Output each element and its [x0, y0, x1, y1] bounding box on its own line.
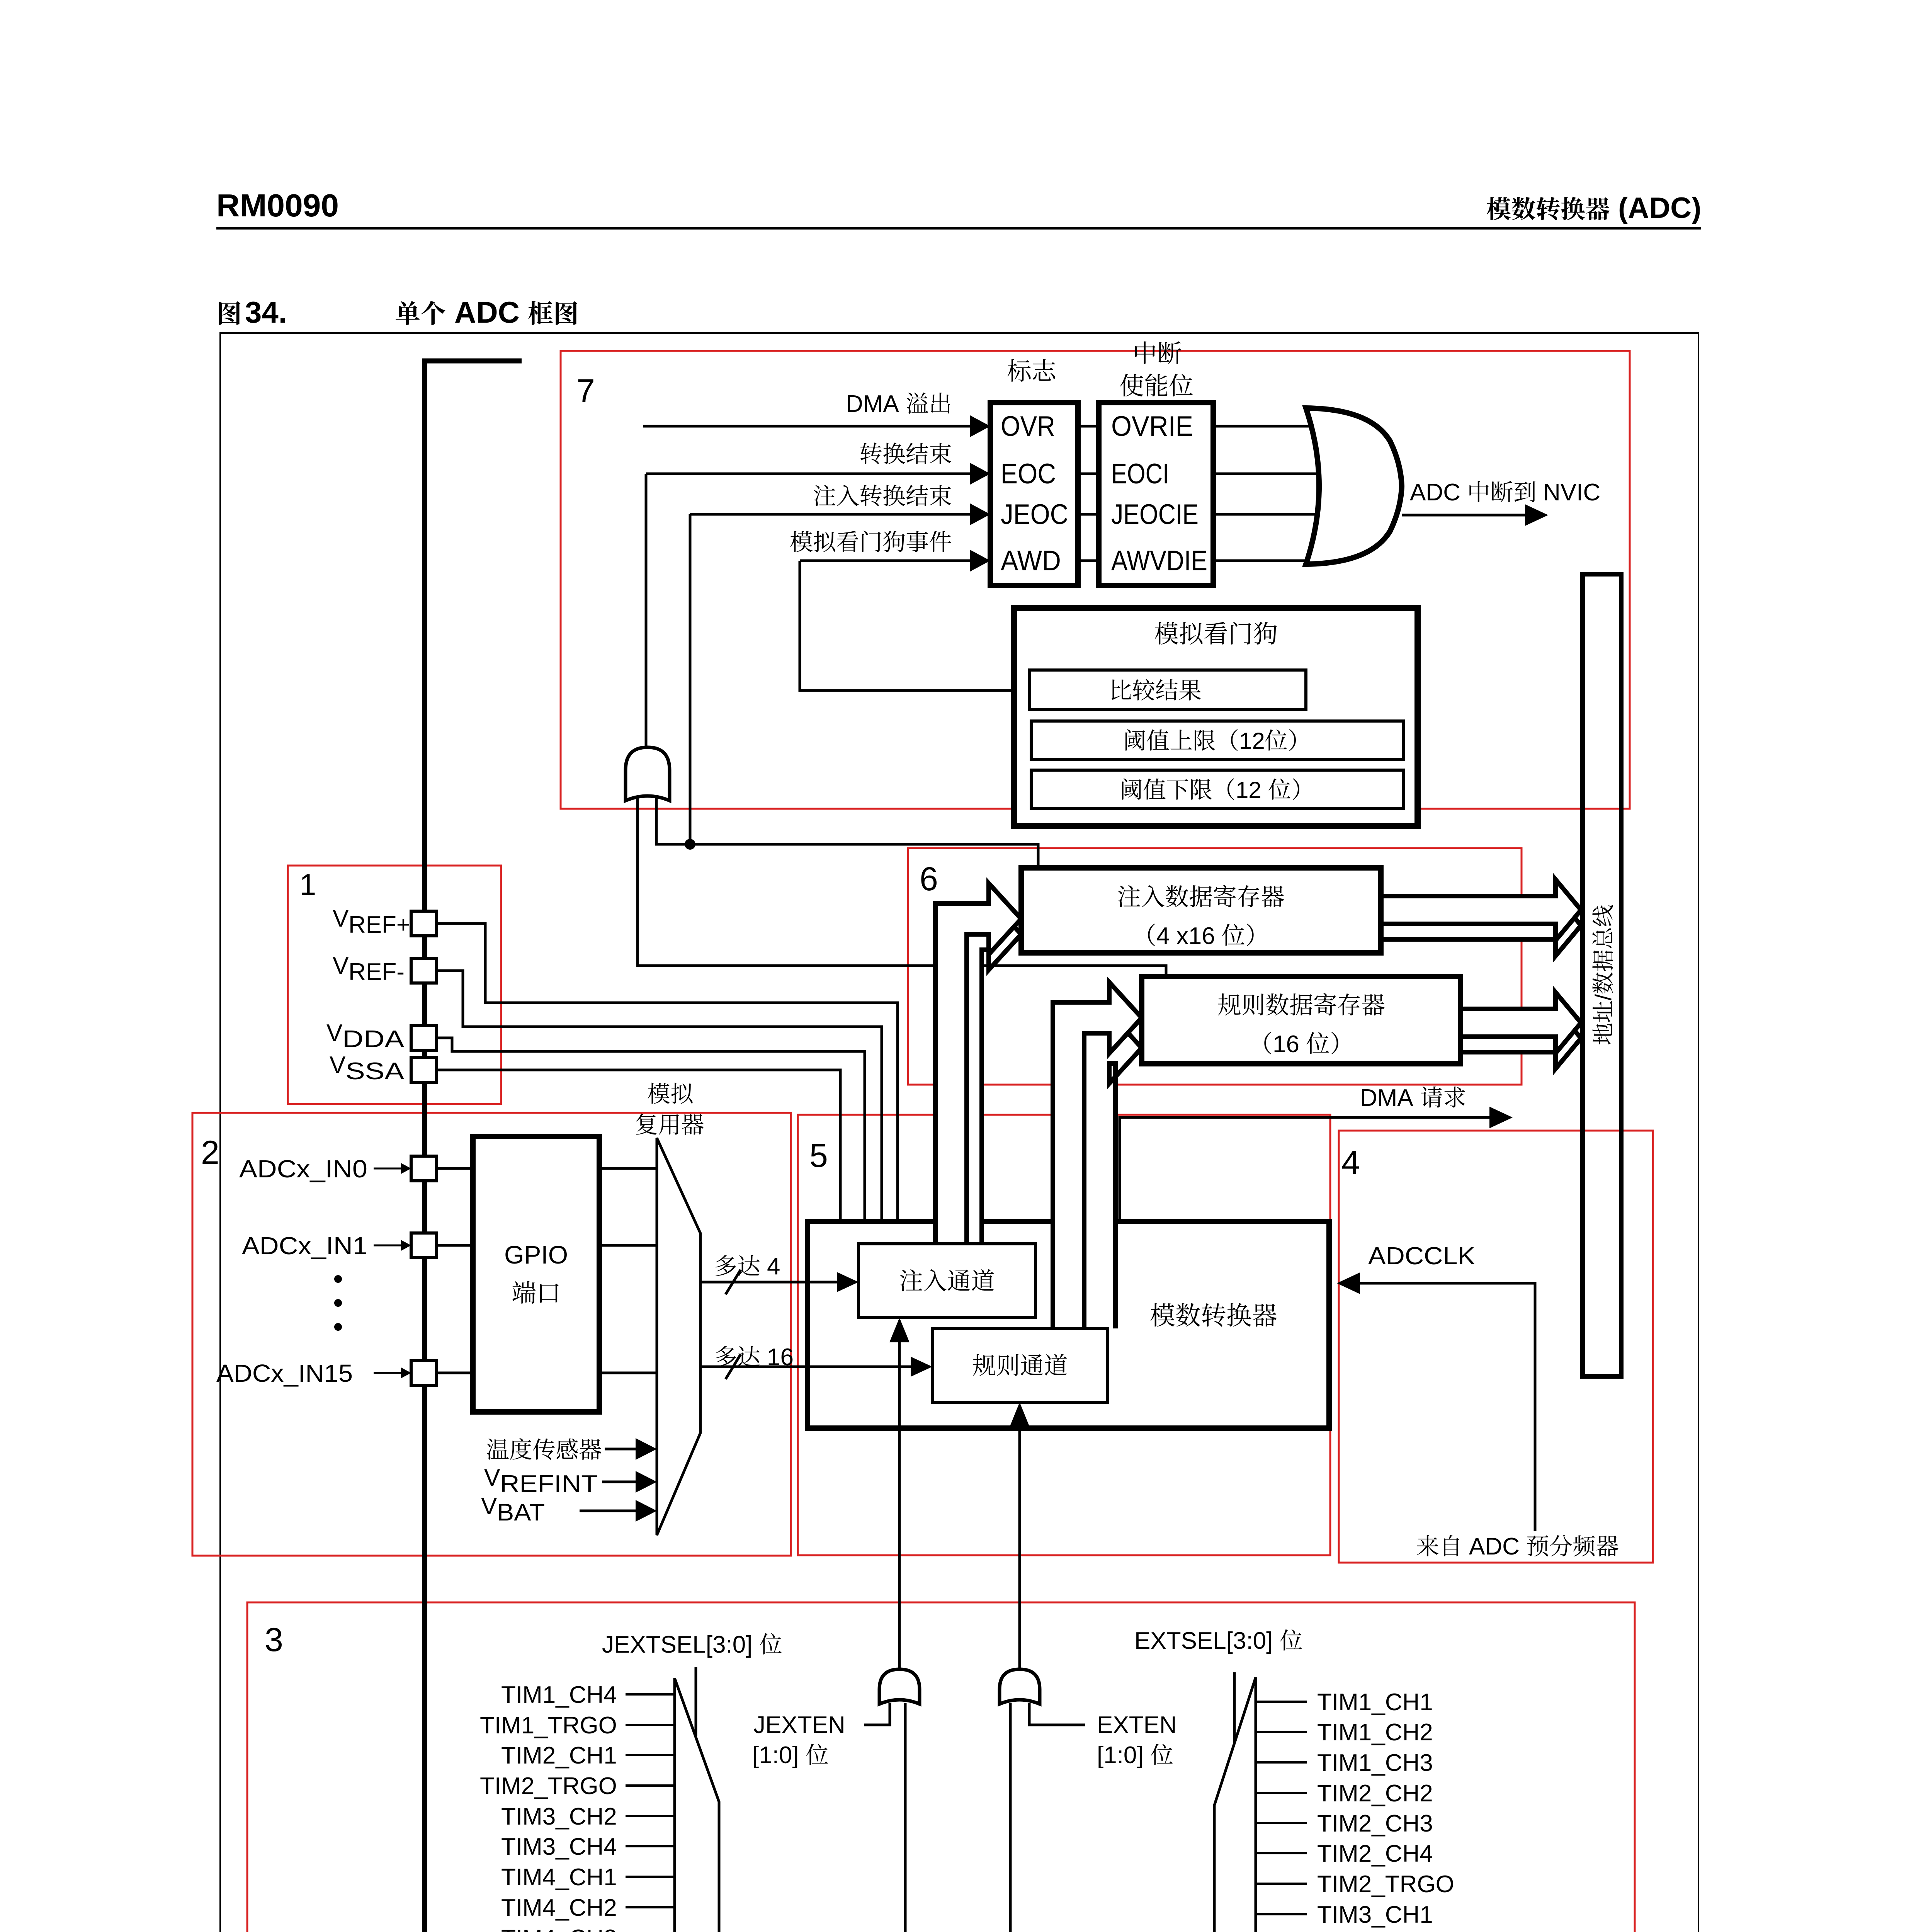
svg-text:TIM1_CH4: TIM1_CH4	[501, 1682, 617, 1708]
svg-text:ADC: ADC	[454, 295, 520, 329]
injected data in arrow back	[950, 899, 1021, 1244]
regular data in arrow front	[1053, 982, 1142, 1328]
watchdog source OR gate	[626, 747, 670, 801]
arrowhead DMA overrun	[970, 415, 990, 437]
svg-text:TIM1_CH2: TIM1_CH2	[1317, 1719, 1433, 1746]
label 16 bits	[1264, 1032, 1271, 1054]
svg-text:V: V	[326, 1020, 343, 1046]
wires flags to enable box	[1078, 425, 1099, 428]
svg-text:RM0090: RM0090	[216, 187, 339, 223]
wire VDDA	[435, 1038, 865, 1221]
svg-text:AWVDIE: AWVDIE	[1111, 545, 1207, 577]
svg-text:ADCx_IN0: ADCx_IN0	[239, 1155, 367, 1183]
wire EOC vertical to OR gate output	[645, 474, 648, 750]
svg-text:12: 12	[1239, 728, 1265, 754]
svg-text:6: 6	[920, 861, 938, 898]
svg-text:(ADC): (ADC)	[1618, 192, 1701, 224]
svg-text:TIM2_CH1: TIM2_CH1	[501, 1742, 617, 1769]
wire VSSA	[435, 1070, 840, 1221]
region 3 outline	[247, 1602, 1635, 1932]
svg-text:TIM4_CH2: TIM4_CH2	[501, 1895, 617, 1921]
wire temp sensor to mux	[605, 1448, 638, 1451]
svg-text:JEXTSEL[3:0]: JEXTSEL[3:0]	[602, 1631, 752, 1658]
label high threshold	[1125, 729, 1145, 750]
arrowhead up-to-16	[911, 1357, 932, 1377]
regular data out arrow front	[1460, 992, 1581, 1053]
GPIO ports box	[473, 1136, 599, 1412]
label compare result	[1112, 679, 1131, 700]
svg-text:ADCx_IN1: ADCx_IN1	[242, 1232, 367, 1260]
pin VREF+	[411, 911, 437, 936]
label injected data registers	[1118, 885, 1140, 907]
regular channels box	[932, 1328, 1107, 1402]
svg-text:4: 4	[767, 1253, 780, 1280]
wire EXTSEL select	[1233, 1672, 1236, 1745]
label regular data register	[1218, 993, 1241, 1015]
svg-text:EOCI: EOCI	[1111, 458, 1169, 490]
label A/D converter	[1151, 1303, 1175, 1327]
wire ADCx_IN0 to GPIO	[435, 1167, 473, 1170]
high threshold box	[1031, 721, 1403, 759]
input bus vertical line	[422, 359, 427, 1932]
svg-text:TIM4_CH3: TIM4_CH3	[501, 1925, 617, 1932]
svg-text:/: /	[1591, 994, 1616, 1000]
svg-text:16: 16	[767, 1344, 794, 1371]
svg-text:NVIC: NVIC	[1543, 479, 1600, 506]
label analog	[648, 1083, 670, 1104]
svg-text:JEXTEN: JEXTEN	[753, 1712, 845, 1738]
label injected channels	[900, 1269, 922, 1291]
label up to 4	[716, 1255, 736, 1276]
svg-text:4: 4	[1341, 1144, 1360, 1181]
svg-text:TIM2_CH3: TIM2_CH3	[1317, 1810, 1433, 1837]
label up to 16	[716, 1346, 736, 1367]
wire VREF+	[435, 923, 898, 1221]
svg-text:16: 16	[1273, 1031, 1299, 1058]
region 7 outline	[561, 351, 1630, 809]
wire JEXTSEL select	[695, 1667, 697, 1736]
svg-text:ADCCLK: ADCCLK	[1368, 1242, 1475, 1270]
label analog watchdog	[1155, 622, 1178, 645]
arrowhead VREFINT	[636, 1471, 657, 1493]
wire injected trigger vertical	[898, 1340, 901, 1670]
region 1 outline	[288, 866, 501, 1104]
svg-text:REFINT: REFINT	[500, 1471, 598, 1497]
label end of conversion	[860, 442, 882, 464]
ADCx_IN1 arrow	[374, 1245, 402, 1247]
compare result box	[1030, 670, 1306, 709]
wire up-to-16 regular channels	[700, 1366, 930, 1368]
svg-text:TIM4_CH1: TIM4_CH1	[501, 1864, 617, 1891]
regular trigger gate	[1000, 1669, 1040, 1704]
wire regular mux output to gate	[1010, 1703, 1214, 1932]
wire ADC interrupt to NVIC	[1402, 514, 1526, 517]
wire injected mux output to gate	[719, 1703, 905, 1932]
pin ADCx_IN0	[411, 1156, 437, 1181]
pin VDDA	[411, 1026, 437, 1050]
dots between inputs	[334, 1275, 342, 1283]
wire AWD row	[800, 560, 972, 562]
svg-text:ADC: ADC	[1469, 1533, 1520, 1560]
arrowhead JEOC	[970, 503, 990, 525]
analog mux trapezoid	[657, 1138, 700, 1535]
ADCx_IN15 arrow	[374, 1372, 402, 1374]
svg-text:3: 3	[265, 1621, 283, 1658]
svg-text:V: V	[484, 1464, 500, 1491]
wires enable box to OR gate	[1213, 425, 1317, 428]
right mux input stubs	[1256, 1701, 1307, 1703]
arrowhead EOC	[970, 463, 990, 485]
svg-text:TIM3_CH4: TIM3_CH4	[501, 1833, 617, 1860]
interrupt enable box	[1099, 403, 1213, 585]
pin VREF-	[411, 958, 437, 983]
slash up-to-4	[726, 1270, 741, 1294]
wire regular trigger vertical	[1018, 1425, 1021, 1670]
junction dot JEOC/injected	[685, 839, 695, 850]
label multiplexer	[636, 1114, 657, 1135]
wire EOC row	[646, 473, 972, 475]
region 6 outline	[908, 848, 1522, 1085]
svg-text:EOC: EOC	[1001, 458, 1056, 490]
svg-text:TIM1_CH1: TIM1_CH1	[1317, 1689, 1433, 1716]
svg-text:TIM2_CH4: TIM2_CH4	[1317, 1840, 1433, 1867]
svg-text:TIM1_TRGO: TIM1_TRGO	[480, 1712, 617, 1739]
svg-text:TIM3_CH2: TIM3_CH2	[501, 1803, 617, 1830]
label injected end of conversion	[814, 485, 835, 506]
pin ADCx_IN15	[411, 1361, 437, 1385]
wire VBAT to mux	[580, 1510, 638, 1512]
svg-text:TIM1_CH3: TIM1_CH3	[1317, 1750, 1433, 1776]
svg-text:5: 5	[809, 1137, 828, 1174]
svg-text:1: 1	[299, 867, 316, 901]
arrowhead AWD	[970, 550, 990, 571]
header text ADC title	[1487, 197, 1511, 220]
wire AWD to compare result	[800, 561, 1030, 690]
wire OR input left to regular data register	[638, 796, 1166, 976]
svg-text:2: 2	[201, 1134, 219, 1171]
wire GPIO to mux ch15	[599, 1372, 657, 1374]
svg-text:DMA: DMA	[1360, 1085, 1413, 1111]
injected data out arrow back	[1381, 895, 1581, 956]
injected data in arrow front	[935, 883, 1021, 1244]
svg-text:34.: 34.	[245, 295, 287, 329]
address/data bus bar	[1583, 574, 1621, 1376]
label ports	[512, 1281, 536, 1304]
injected data out arrow front	[1381, 879, 1581, 940]
label enable bits	[1120, 374, 1143, 396]
region 2 outline	[192, 1113, 791, 1556]
wire ADCCLK	[1359, 1283, 1535, 1531]
wire JEOC vertical	[689, 514, 692, 844]
svg-text:DMA: DMA	[846, 391, 899, 417]
regular data in arrow back	[1084, 1012, 1142, 1328]
slash up-to-16	[726, 1354, 741, 1379]
svg-text:DDA: DDA	[342, 1026, 405, 1053]
svg-text:12: 12	[1236, 777, 1261, 803]
wire up-to-4 injected channels	[700, 1281, 856, 1284]
svg-text:SSA: SSA	[345, 1058, 405, 1085]
label regular channels	[973, 1354, 995, 1376]
wire GPIO to mux ch1	[599, 1244, 657, 1247]
svg-text:V: V	[481, 1493, 497, 1520]
label 4x16 bits	[1148, 923, 1155, 946]
wire JEXTEN to gate	[864, 1703, 890, 1725]
wire DMA overrun row	[643, 425, 972, 428]
regular data out arrow back	[1460, 1008, 1581, 1069]
svg-text:7: 7	[576, 372, 595, 410]
svg-text:REF+: REF+	[349, 912, 410, 938]
svg-text:V: V	[333, 952, 349, 979]
outer frame	[220, 333, 1698, 1932]
region 5 outline	[798, 1115, 1330, 1555]
arrowhead up-to-4	[837, 1272, 859, 1292]
svg-text:OVRIE: OVRIE	[1111, 411, 1193, 442]
svg-text:JEOCIE: JEOCIE	[1111, 499, 1199, 530]
regular data register box	[1142, 976, 1460, 1064]
wire VREFINT to mux	[602, 1481, 638, 1483]
label analog watchdog event	[791, 531, 813, 552]
svg-text:TIM3_CH1: TIM3_CH1	[1317, 1901, 1433, 1928]
flags box	[990, 403, 1078, 585]
label temperature sensor	[487, 1439, 508, 1460]
injected channels box	[859, 1244, 1035, 1318]
svg-text:TIM2_TRGO: TIM2_TRGO	[480, 1773, 617, 1799]
ADCx_IN0 arrow	[374, 1168, 402, 1170]
address/data bus label	[1591, 905, 1616, 1044]
pin VSSA	[411, 1058, 437, 1082]
injected data registers box	[1021, 868, 1381, 953]
svg-text:TIM2_TRGO: TIM2_TRGO	[1317, 1871, 1454, 1898]
svg-text:EXTEN: EXTEN	[1097, 1712, 1177, 1738]
wire EXTEN to gate	[1029, 1703, 1085, 1725]
arrowhead temp sensor	[636, 1438, 657, 1460]
svg-text:4 x16: 4 x16	[1156, 923, 1215, 949]
injected trigger gate	[879, 1669, 920, 1704]
svg-text:JEOC: JEOC	[1001, 499, 1068, 530]
svg-text:GPIO: GPIO	[504, 1240, 568, 1269]
wire DMA request	[1120, 1117, 1491, 1221]
wire ADCx_IN1 to GPIO	[435, 1244, 473, 1247]
svg-text:REF-: REF-	[349, 959, 405, 985]
wire ADCx_IN15 to GPIO	[435, 1372, 473, 1374]
svg-text:[1:0]: [1:0]	[752, 1742, 799, 1769]
interrupt OR gate	[1306, 408, 1402, 564]
wire GPIO to mux ch0	[599, 1167, 657, 1170]
wire JEOC row	[690, 513, 972, 516]
svg-text:[1:0]: [1:0]	[1097, 1742, 1144, 1769]
figure caption	[219, 301, 240, 325]
wire OR input right to injected data register	[656, 796, 1038, 868]
svg-text:BAT: BAT	[497, 1499, 545, 1526]
svg-text:ADCx_IN15: ADCx_IN15	[216, 1359, 353, 1387]
region 4 outline	[1339, 1131, 1653, 1563]
svg-text:TIM2_CH2: TIM2_CH2	[1317, 1780, 1433, 1807]
arrowhead VBAT	[636, 1500, 657, 1522]
regular trigger mux	[1214, 1677, 1256, 1932]
svg-text:V: V	[333, 905, 349, 932]
wire VREF-	[435, 971, 882, 1221]
label low threshold	[1122, 778, 1142, 799]
header rule	[216, 227, 1701, 230]
low threshold box	[1031, 770, 1403, 808]
svg-text:V: V	[330, 1052, 346, 1078]
bus top stub	[422, 359, 522, 364]
label from ADC prescaler	[1417, 1535, 1438, 1556]
label interrupt	[1135, 341, 1156, 364]
A/D converter outer box	[808, 1221, 1329, 1428]
left mux input stubs	[626, 1693, 675, 1696]
analog watchdog box	[1014, 608, 1418, 826]
svg-text:ADC: ADC	[1410, 479, 1460, 506]
injected trigger mux	[675, 1678, 719, 1932]
svg-text:EXTSEL[3:0]: EXTSEL[3:0]	[1134, 1628, 1273, 1654]
svg-text:AWD: AWD	[1001, 545, 1061, 577]
svg-text:OVR: OVR	[1001, 411, 1055, 442]
pin ADCx_IN1	[411, 1233, 437, 1258]
label flags	[1007, 359, 1030, 381]
